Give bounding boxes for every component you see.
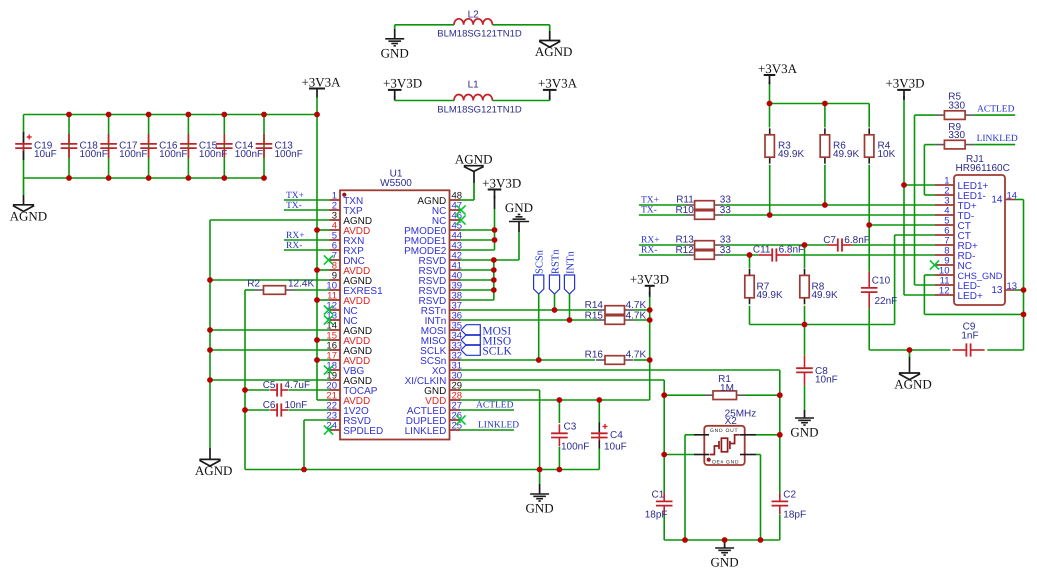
U1 pin 42 RSVD — [450, 259, 461, 261]
wire R2 to AGND rail — [244, 290, 246, 470]
no-connect X pin47 NC — [456, 205, 465, 214]
wire RSTn tag stem — [554, 294, 556, 310]
svg-text:100nF: 100nF — [80, 149, 108, 160]
capacitor C9 1nF — [952, 349, 966, 351]
inductor L1 BLM18SG121TN1D — [454, 95, 492, 101]
wire CT pin5 — [869, 224, 935, 226]
wire RSVD pin23 — [304, 419, 330, 421]
svg-text:100nF: 100nF — [561, 442, 589, 453]
wire AVDD stub — [317, 269, 330, 271]
U1 pin 31 XO — [450, 369, 461, 371]
wire INTn tag stem — [569, 294, 571, 320]
no-connect X pin46 NC — [456, 215, 465, 224]
wire EXRES1 — [295, 289, 330, 291]
svg-text:4.7uF: 4.7uF — [285, 380, 311, 391]
no-connect X pin26 DUPLED — [456, 415, 465, 424]
ground GND (U1 bottom) — [539, 470, 541, 485]
wire TD+ row — [639, 204, 686, 206]
U1 pin 48 AGND — [450, 199, 461, 201]
wire SCSn row — [460, 359, 595, 361]
U1 pin 26 DUPLED — [450, 419, 461, 421]
svg-text:LINKLED: LINKLED — [405, 426, 447, 437]
svg-text:GND: GND — [790, 425, 818, 440]
svg-text:1M: 1M — [720, 383, 734, 394]
wire +3V3A stem to AVDD pins — [316, 98, 318, 401]
svg-text:10K: 10K — [878, 149, 896, 160]
U1 pin 21 AVDD — [330, 399, 341, 401]
capacitor C18 — [68, 115, 70, 179]
svg-text:4.7K: 4.7K — [626, 311, 647, 322]
resistor R9 330 — [924, 144, 935, 146]
wire AGND vertical — [209, 220, 211, 448]
svg-text:100nF: 100nF — [199, 149, 227, 160]
svg-text:100nF: 100nF — [159, 149, 187, 160]
power +3V3D (pull-ups) — [645, 285, 655, 287]
svg-text:AGND: AGND — [535, 44, 573, 59]
svg-text:LINKLED: LINKLED — [478, 421, 519, 431]
wire LED- pin11 — [915, 284, 936, 286]
port tag INTn — [564, 275, 574, 294]
wire LED1+ pin1 — [904, 184, 935, 186]
capacitor C3 100nF — [558, 400, 560, 423]
svg-text:+3V3A: +3V3A — [758, 61, 798, 76]
capacitor C10 22nF — [868, 225, 870, 271]
wire INTn row — [460, 319, 596, 321]
wire TXN stub — [284, 199, 330, 201]
svg-text:100nF: 100nF — [119, 149, 147, 160]
U1 pin 4 AVDD — [330, 229, 341, 231]
svg-text:R14: R14 — [585, 300, 604, 311]
wire +3V3A stem — [769, 84, 771, 103]
wire C9 row — [869, 349, 950, 351]
U1 pin 23 RSVD — [330, 419, 341, 421]
wire AVDD stub — [317, 229, 330, 231]
U1 pin 18 VBG — [330, 369, 341, 371]
no-connect X pin13 NC — [324, 315, 333, 324]
resistor R4 10K — [868, 104, 870, 128]
wire CT pin6 — [895, 234, 935, 236]
svg-text:10uF: 10uF — [34, 149, 57, 160]
svg-text:RX+: RX+ — [641, 236, 660, 246]
power +3V3A (RJ45 bias) — [764, 74, 776, 76]
wire XI vertical — [663, 380, 665, 493]
U1 pin 28 VDD — [450, 399, 461, 401]
wire SCSn tag stem — [538, 294, 540, 360]
wire XO pin31 — [460, 369, 780, 371]
resistor R6 49.9K — [824, 104, 826, 128]
svg-text:R16: R16 — [585, 350, 604, 361]
svg-text:HR961160C: HR961160C — [956, 163, 1010, 174]
resistor R7 49.9K — [749, 255, 751, 269]
svg-text:RX-: RX- — [641, 246, 657, 256]
svg-text:13: 13 — [991, 285, 1003, 296]
capacitor C14 — [223, 115, 225, 179]
wire AGND pin16 — [210, 349, 330, 351]
connector RJ1 HR961160C body — [954, 175, 1005, 305]
wire AGND bottom rail — [24, 177, 265, 179]
U1 pin 14 AGND — [330, 329, 341, 331]
capacitor C6 10nF — [289, 409, 330, 411]
wire RSVD — [460, 269, 494, 271]
svg-text:AGND: AGND — [195, 463, 233, 478]
svg-text:12: 12 — [939, 286, 950, 297]
wire termination row — [750, 324, 895, 326]
svg-text:22nF: 22nF — [875, 296, 898, 307]
ground AGND (above U1) — [473, 183, 475, 200]
U1 pin 43 PMODE2 — [450, 249, 461, 251]
svg-text:R10: R10 — [675, 205, 694, 216]
RJ1 pin 2 LED1- — [935, 194, 954, 196]
resistor R5 330 — [915, 114, 936, 116]
wire RXN stub — [284, 239, 330, 241]
wire X2 GND pin to rail — [685, 434, 694, 436]
wire R9 LINKLED — [974, 144, 1015, 146]
U1 pin 6 RXP — [330, 249, 341, 251]
svg-text:1nF: 1nF — [961, 331, 978, 342]
U1 pin 30 XI/CLKIN — [450, 379, 461, 381]
wire R5 to LED- — [914, 115, 916, 285]
power +3V3A (L1 right) — [543, 89, 557, 91]
svg-text:GND: GND — [526, 501, 554, 516]
U1 pin 44 PMODE1 — [450, 239, 461, 241]
svg-text:C2: C2 — [783, 490, 796, 501]
svg-text:AGND: AGND — [894, 377, 932, 392]
svg-text:C6: C6 — [263, 400, 276, 411]
svg-text:C5: C5 — [263, 380, 276, 391]
RJ1 pin 11 LED- — [935, 284, 954, 286]
svg-text:+3V3D: +3V3D — [885, 76, 924, 91]
resistor R14 4.7K — [596, 309, 605, 311]
U1 pin 34 MISO — [450, 339, 461, 341]
wire +3V3A top rail — [24, 114, 317, 116]
power +3V3D (PMODE) — [488, 189, 502, 191]
U1 pin 2 TXP — [330, 209, 341, 211]
svg-text:SPDLED: SPDLED — [343, 426, 383, 437]
RJ1 pin 6 CT — [935, 234, 954, 236]
svg-text:+3V3D: +3V3D — [383, 76, 422, 91]
wire R4 to CT — [868, 165, 870, 225]
U1 pin 37 RSTn — [450, 309, 461, 311]
wire ACTLED pin27 — [460, 409, 514, 411]
wire AGND pin9 — [210, 279, 330, 281]
svg-text:10uF: 10uF — [604, 442, 627, 453]
capacitor C1 18pF — [663, 493, 665, 502]
ground AGND (U1 left) — [209, 448, 211, 459]
U1 pin 8 AVDD — [330, 269, 341, 271]
port tag SCSn — [534, 275, 544, 294]
wire RSVD — [460, 289, 494, 291]
port tag SCLK — [461, 345, 480, 356]
svg-text:14: 14 — [991, 195, 1003, 206]
inductor L2 BLM18SG121TN1D — [454, 19, 492, 25]
svg-text:10nF: 10nF — [285, 400, 308, 411]
wire +3V3A rail — [770, 103, 870, 105]
wire CHS_GND pin10 — [924, 274, 935, 276]
U1 pin 41 RSVD — [450, 269, 461, 271]
wire RSVD pin42 — [460, 259, 519, 261]
wire RSVD vertical — [493, 260, 495, 300]
RJ1 pin 9 NC — [935, 264, 954, 266]
ground GND (RSVD) — [518, 232, 520, 260]
capacitor C2 18pF — [779, 493, 781, 502]
resistor R12 33 — [686, 254, 695, 256]
svg-text:INTn: INTn — [565, 251, 576, 274]
U1 pin 32 SCSn — [450, 359, 461, 361]
U1 pin 36 INTn — [450, 319, 461, 321]
svg-text:49.9K: 49.9K — [833, 149, 859, 160]
U1 pin 29 GND — [450, 389, 461, 391]
RJ1 pin 3 TD+ — [935, 204, 954, 206]
svg-text:C1: C1 — [652, 490, 665, 501]
svg-text:SCSn: SCSn — [535, 249, 546, 274]
svg-text:330: 330 — [948, 100, 965, 111]
svg-text:R15: R15 — [585, 311, 604, 322]
svg-text:C7: C7 — [823, 235, 836, 246]
U1 pin 11 AVDD — [330, 299, 341, 301]
svg-text:TX+: TX+ — [641, 196, 659, 206]
svg-text:GND OUT: GND OUT — [710, 428, 738, 434]
wire LED1- pin2 — [924, 194, 935, 196]
wire bottom GND rail — [245, 469, 599, 471]
wire X2 OE# to XI — [664, 454, 694, 456]
U1 pin 3 AGND — [330, 219, 341, 221]
wire RD- row — [639, 254, 686, 256]
ground GND (crystal) — [724, 540, 726, 548]
resistor R1 1M — [664, 394, 704, 396]
wire RSTn row — [460, 309, 596, 311]
U1 pin 19 AGND — [330, 379, 341, 381]
wire AVDD stub — [317, 299, 330, 301]
U1 pin 16 AGND — [330, 349, 341, 351]
capacitor C15 — [187, 115, 189, 179]
resistor R16 4.7K — [596, 359, 605, 361]
wire X2 GND2 to rail — [756, 454, 761, 456]
wire GND pin29 down — [539, 390, 541, 470]
ground GND (C8) — [804, 410, 806, 418]
U1 pin 22 1V2O — [330, 409, 341, 411]
no-connect X RJ1 pin9 — [930, 260, 939, 269]
port tag MOSI — [461, 325, 480, 336]
svg-text:6.8nF: 6.8nF — [779, 245, 805, 256]
svg-text:+3V3A: +3V3A — [301, 74, 341, 89]
svg-text:+3V3D: +3V3D — [482, 175, 521, 190]
ground AGND (L2 right) — [549, 25, 551, 31]
wire AVDD stub — [317, 339, 330, 341]
RJ1 pin 5 CT — [935, 224, 954, 226]
svg-text:R2: R2 — [247, 279, 260, 290]
U1 pin 17 AVDD — [330, 359, 341, 361]
X2 pin stubs — [694, 435, 756, 455]
svg-text:AGND: AGND — [455, 151, 493, 166]
U1 pin 5 RXN — [330, 239, 341, 241]
U1 pin 45 PMODE0 — [450, 229, 461, 231]
wire pin14 right — [1015, 199, 1024, 201]
U1 pin 10 EXRES1 — [330, 289, 341, 291]
svg-text:W5500: W5500 — [380, 178, 412, 189]
svg-text:100nF: 100nF — [275, 149, 303, 160]
wire LINKLED pin25 — [460, 429, 514, 431]
X2 internal crystal glyph — [710, 435, 740, 455]
svg-text:12.4K: 12.4K — [288, 279, 314, 290]
wire RSVD — [460, 279, 494, 281]
ground AGND (RJ45) — [909, 350, 911, 357]
svg-text:+3V3D: +3V3D — [630, 272, 669, 287]
wire pin23 down — [303, 420, 305, 470]
U1 pin 27 ACTLED — [450, 409, 461, 411]
svg-text:33: 33 — [720, 205, 732, 216]
resistor R10 33 — [686, 214, 695, 216]
RJ1 pin 4 TD- — [935, 214, 954, 216]
svg-text:18pF: 18pF — [783, 510, 806, 521]
svg-text:LINKLED: LINKLED — [977, 134, 1018, 144]
svg-text:C11: C11 — [753, 245, 771, 256]
wire pin48 AGND — [460, 199, 474, 201]
U1 pin 24 SPDLED — [330, 429, 341, 431]
capacitor C8 10nF — [804, 325, 806, 356]
capacitor C4 10uF (polar) — [598, 400, 600, 423]
port tag MISO — [461, 335, 480, 346]
wire X2 OUT to XO — [756, 434, 780, 436]
svg-text:AGND: AGND — [10, 208, 48, 223]
svg-text:ACTLED: ACTLED — [476, 401, 514, 411]
wire TD- row — [639, 214, 686, 216]
svg-text:33: 33 — [720, 245, 732, 256]
wire AVDD stub — [317, 359, 330, 361]
svg-text:49.9K: 49.9K — [778, 149, 804, 160]
svg-text:LED+: LED+ — [958, 291, 983, 302]
RJ1 pin 10 CHS_GND — [935, 274, 954, 276]
svg-text:RSTn: RSTn — [550, 249, 561, 274]
svg-text:R12: R12 — [675, 245, 694, 256]
U1 pin 33 SCLK — [450, 349, 461, 351]
wire R8 down — [804, 306, 806, 325]
svg-text:GND: GND — [381, 45, 409, 60]
wire RJ1 right vertical — [1023, 200, 1025, 351]
svg-text:RX-: RX- — [286, 241, 302, 251]
U1 pin 35 MOSI — [450, 329, 461, 331]
wire RD+ row — [639, 244, 686, 246]
U1 pin 13 NC — [330, 319, 341, 321]
wire RXP stub — [284, 249, 330, 251]
svg-text:C4: C4 — [610, 430, 623, 441]
capacitor C7 6.8nF — [828, 244, 838, 246]
wire RSVD pin38 — [460, 299, 494, 301]
wire CHS_GND row — [924, 313, 1023, 315]
svg-text:GND: GND — [711, 555, 739, 570]
svg-text:18pF: 18pF — [645, 510, 668, 521]
RJ1 pin 13 — [1005, 289, 1015, 291]
svg-text:CHS_GND: CHS_GND — [958, 271, 1003, 281]
svg-text:GND: GND — [505, 200, 533, 215]
svg-text:SCLK: SCLK — [482, 345, 512, 357]
wire VDD pin28 — [460, 399, 650, 401]
wire +3V3D stem — [494, 209, 496, 250]
svg-text:OE# GND: OE# GND — [712, 459, 739, 465]
wire R9 to LED1- — [923, 145, 925, 195]
svg-text:330: 330 — [948, 130, 965, 141]
svg-text:C10: C10 — [872, 276, 891, 287]
RJ1 pin 1 LED1+ — [935, 184, 954, 186]
power +3V3D (RJ45 LED) — [897, 89, 911, 91]
U1 pin 25 LINKLED — [450, 429, 461, 431]
IC U1 W5500 body — [340, 190, 450, 439]
capacitor C19 — [23, 115, 25, 179]
wire AGND pin19 — [210, 379, 330, 381]
U1 pin 12 NC — [330, 309, 341, 311]
svg-text:TX-: TX- — [641, 206, 657, 216]
ground GND (L2 left) — [394, 25, 396, 29]
svg-text:TX-: TX- — [286, 201, 302, 211]
wire AVDD pin21 stub — [317, 399, 330, 401]
power +3V3A (AVDD rail) — [309, 88, 325, 90]
oscillator X2 25MHz body — [704, 426, 744, 465]
svg-text:49.9K: 49.9K — [757, 290, 783, 301]
resistor R15 4.7K — [596, 319, 605, 321]
RJ1 pin 8 RD- — [935, 254, 954, 256]
U1 pin 20 TOCAP — [330, 389, 341, 391]
U1 pin 1 TXN — [330, 199, 341, 201]
wire XO vertical — [779, 370, 781, 493]
svg-text:C3: C3 — [564, 422, 577, 433]
ground AGND (cap bank) — [23, 178, 25, 195]
resistor R11 33 — [686, 204, 695, 206]
wire crystal GND rail — [664, 539, 780, 541]
svg-text:L2: L2 — [468, 10, 480, 21]
U1 pin 9 AGND — [330, 279, 341, 281]
resistor R3 49.9K — [769, 104, 771, 128]
svg-text:4.7K: 4.7K — [626, 300, 647, 311]
no-connect X pin12 NC — [324, 305, 333, 314]
wire R7 down — [749, 306, 751, 325]
no-connect X pin18 VBG — [324, 365, 333, 374]
svg-text:BLM18SG121TN1D: BLM18SG121TN1D — [437, 104, 522, 115]
wire pin13 right — [1015, 289, 1024, 291]
wire PMODE1 — [460, 239, 495, 241]
U1 pin 7 DNC — [330, 259, 341, 261]
U1 pin 39 RSVD — [450, 289, 461, 291]
junction dots layer — [66, 101, 1026, 543]
svg-text:6.8nF: 6.8nF — [844, 235, 870, 246]
wire XI/CLKIN pin30 — [460, 379, 664, 381]
wire GND pin29 — [460, 389, 540, 391]
svg-text:10nF: 10nF — [815, 375, 838, 386]
svg-text:+3V3A: +3V3A — [538, 76, 578, 91]
U1 pin 15 AVDD — [330, 339, 341, 341]
resistor R13 33 — [686, 244, 695, 246]
svg-text:4.7K: 4.7K — [626, 350, 647, 361]
svg-text:BLM18SG121TN1D: BLM18SG121TN1D — [437, 28, 522, 39]
wire PMODE2 — [460, 249, 495, 251]
wire +3V3D to LED+ — [903, 100, 905, 295]
U1 pin 47 NC — [450, 209, 461, 211]
wire TXP stub — [284, 209, 330, 211]
svg-text:49.9K: 49.9K — [812, 290, 838, 301]
RJ1 pin 7 RD+ — [935, 244, 954, 246]
wire R3 to TD- — [769, 165, 771, 215]
U1 pin 40 RSVD — [450, 279, 461, 281]
no-connect X pin7 DNC — [324, 255, 333, 264]
U1 pin 46 NC — [450, 219, 461, 221]
svg-text:ACTLED: ACTLED — [977, 105, 1015, 115]
wire R6 to TD+ — [824, 165, 826, 205]
svg-text:100nF: 100nF — [235, 149, 263, 160]
svg-text:RX+: RX+ — [286, 231, 305, 241]
svg-text:L1: L1 — [468, 80, 480, 91]
svg-text:TX+: TX+ — [286, 191, 304, 201]
wire LED+ pin12 — [904, 294, 935, 296]
capacitor C11 6.8nF — [758, 254, 772, 256]
wire L1 net — [395, 100, 454, 102]
